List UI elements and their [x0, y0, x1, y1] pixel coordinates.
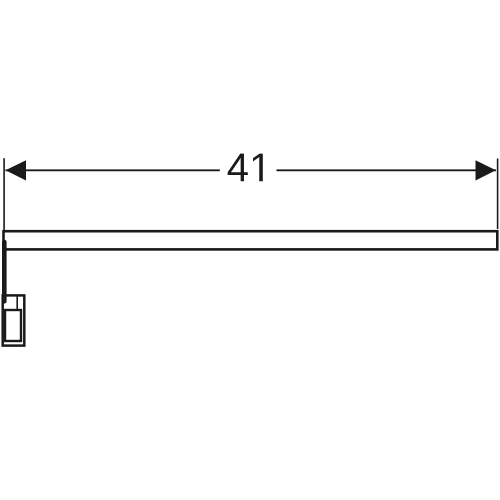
bar (horizontal rail) [4, 231, 498, 249]
dimension line right segment [277, 169, 497, 171]
glass panel edge [2, 242, 7, 301]
dimension label 41: digit 4 [228, 154, 248, 182]
clamp inner slot [5, 310, 21, 341]
dimension line left segment [6, 169, 220, 171]
extension line left [3, 158, 5, 231]
clamp outer profile [3, 295, 25, 345]
right arrowhead [476, 160, 496, 180]
left arrowhead [6, 160, 27, 180]
clamp divider [16, 296, 18, 310]
extension line right [497, 159, 499, 230]
dimension label 41: digit 1 [253, 154, 263, 182]
